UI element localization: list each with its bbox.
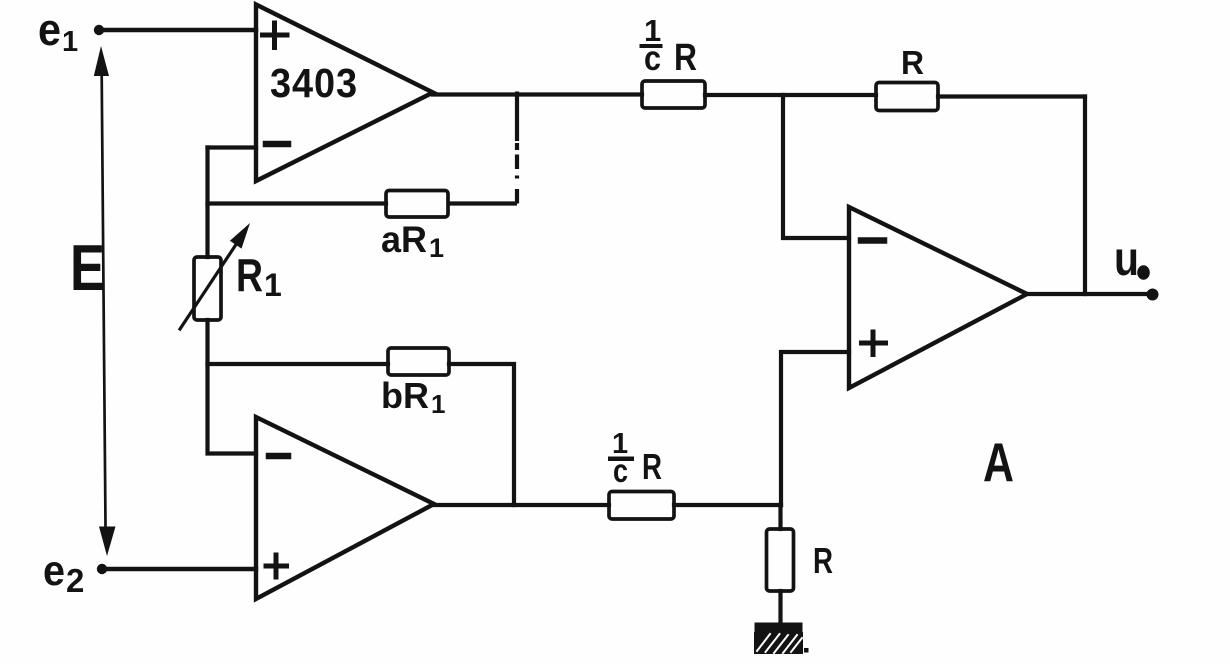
resistor R (bottom) body — [767, 529, 794, 591]
resistor 1/c R (bottom) body — [609, 492, 674, 520]
resistor aR1 body — [386, 191, 448, 218]
wire U1 output to resistor 1/cR (top) — [433, 92, 642, 96]
node e1 terminal dot — [94, 25, 104, 35]
label R1 — [236, 249, 282, 303]
R1 adjustment arrow — [180, 223, 250, 329]
svg-text:1: 1 — [62, 26, 78, 58]
svg-text:c: c — [644, 39, 661, 78]
resistor bR1 body — [388, 348, 449, 375]
label A (amplifier) — [983, 431, 1014, 493]
resistor 1/c R (top) body — [642, 81, 705, 108]
wire U1 inverting input to node column — [208, 145, 257, 149]
wire resistor R to ground — [778, 591, 782, 625]
svg-text:A: A — [983, 431, 1014, 493]
wire node column upper segment — [205, 148, 209, 258]
wire U2 output to resistor 1/cR (bottom) — [434, 503, 609, 507]
label aR1 — [381, 219, 444, 263]
ground symbol — [754, 623, 809, 655]
label R (top feedback) — [901, 44, 924, 81]
wire node to resistor aR1 — [208, 201, 387, 205]
wire node C up to U3 non-inverting input — [781, 352, 849, 505]
wire node C down to resistor R (bottom) — [778, 505, 782, 529]
svg-text:e: e — [38, 4, 61, 55]
svg-text:R: R — [642, 446, 662, 487]
wire 1/cR to node B and on to resistor R (top) — [705, 93, 876, 97]
node B drop wire to U3 inverting input — [783, 95, 849, 238]
svg-text:1: 1 — [264, 267, 282, 303]
variable resistor R1 body — [194, 257, 221, 320]
svg-text:1: 1 — [429, 233, 444, 263]
svg-text:2: 2 — [66, 562, 84, 599]
U1 plus input symbol — [263, 23, 288, 48]
node u output terminal dot — [1147, 289, 1159, 301]
wire bR1 to U2 output column — [449, 364, 514, 505]
wire R to feedback corner — [938, 94, 1085, 98]
label 3403 inside U1 — [270, 60, 358, 106]
wire aR1 to U1 output (with scan-faded vertical) — [448, 92, 517, 204]
label 1/c R (bottom) — [608, 428, 662, 489]
op-amp U3 triangle — [849, 207, 1027, 388]
svg-text:E: E — [70, 231, 105, 304]
op-amp U1 triangle — [256, 5, 433, 182]
label e2 — [43, 547, 84, 599]
svg-text:c: c — [613, 452, 628, 489]
svg-text:bR: bR — [381, 375, 429, 416]
svg-text:R: R — [813, 540, 833, 581]
svg-text:1: 1 — [431, 389, 445, 419]
svg-text:3403: 3403 — [270, 60, 358, 106]
wire 1/cR (bottom) to node C — [674, 503, 781, 507]
svg-text:R: R — [674, 37, 697, 79]
wire e1 to op-amp U1 non-inverting input — [99, 28, 256, 32]
wire e2 to U2 non-inverting input — [102, 567, 256, 571]
svg-text:aR: aR — [381, 219, 427, 260]
svg-text:e: e — [43, 547, 65, 595]
U2 minus input symbol — [269, 453, 288, 460]
svg-text:R: R — [236, 249, 263, 301]
op-amp U2 triangle — [256, 417, 434, 599]
feedback vertical wire to U3 output — [1083, 97, 1087, 295]
wire U3 output to terminal — [1027, 292, 1148, 296]
label bR1 — [381, 375, 445, 419]
label E — [70, 231, 105, 304]
U3 plus input symbol — [862, 332, 886, 355]
node e2 terminal dot — [97, 564, 107, 574]
label u output — [1114, 233, 1150, 286]
resistor R (top feedback) body — [876, 83, 938, 111]
U1 minus input symbol — [266, 141, 288, 148]
label R (bottom) — [813, 540, 833, 581]
U2 plus input symbol — [266, 555, 287, 577]
U3 minus input symbol — [861, 237, 884, 244]
wire bR1 node to resistor bR1 — [208, 362, 389, 366]
label e1 — [38, 4, 78, 58]
voltage arrow E (double-headed, between e1 and e2) — [94, 46, 116, 556]
label 1/c R (top) — [640, 13, 698, 79]
svg-text:u: u — [1114, 233, 1139, 286]
wire node column lower segment to U2 inverting input — [208, 320, 257, 454]
svg-text:R: R — [901, 44, 924, 81]
